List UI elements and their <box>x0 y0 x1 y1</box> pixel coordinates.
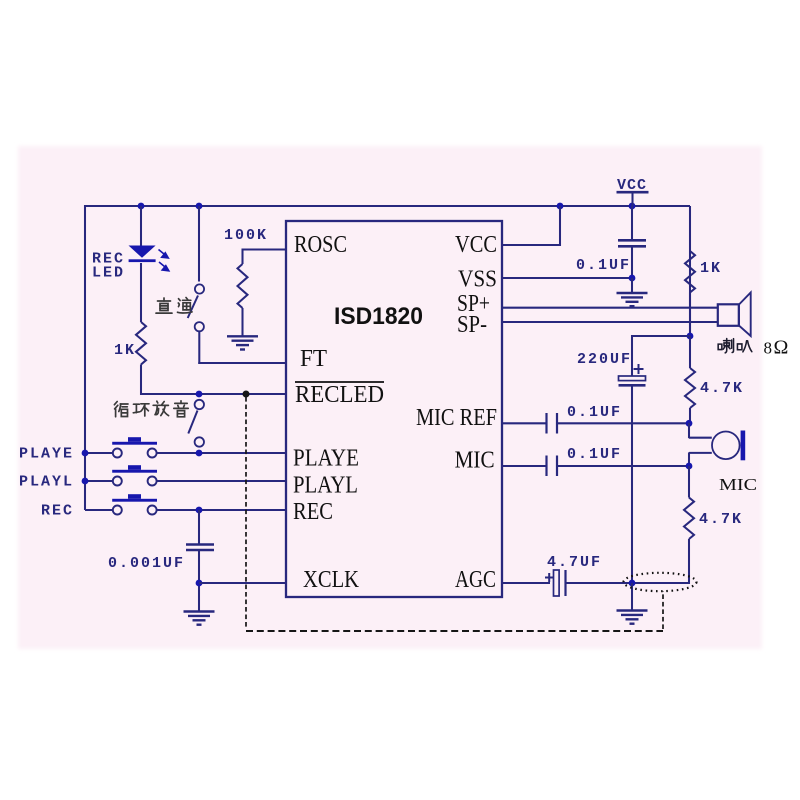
long vertical from 220UF to AGC ground <box>631 385 633 583</box>
svg-text:0.001UF: 0.001UF <box>108 555 185 572</box>
dashed link path <box>245 397 247 629</box>
wire MIC <box>502 465 546 467</box>
ground below 100K <box>227 335 258 337</box>
wire LED to R 1K <box>140 263 142 322</box>
svg-text:4.7K: 4.7K <box>699 511 743 528</box>
push button PLAYE <box>85 452 113 454</box>
wire junction to 220UF <box>632 335 690 337</box>
wire: right vertical rail (1K/speaker/mic chain) <box>689 206 691 336</box>
svg-text:REC: REC <box>41 503 74 520</box>
resistor R 4.7K (upper) <box>689 336 691 368</box>
capacitor C 0.001UF branch <box>198 510 200 544</box>
svg-text:0.1UF: 0.1UF <box>576 257 631 274</box>
svg-text:MIC: MIC <box>719 475 757 494</box>
capacitor C 0.1UF (MIC) <box>545 456 547 477</box>
ground below 0.001UF <box>184 610 215 612</box>
node dots on RECLED row <box>196 391 203 398</box>
resistor R 100K + wire to ROSC <box>243 248 287 250</box>
speaker LS1 <box>718 304 739 326</box>
svg-text:4.7K: 4.7K <box>700 380 744 397</box>
svg-text:VCC: VCC <box>455 232 497 258</box>
push button REC <box>85 509 113 511</box>
node: black dot feedback tap <box>243 391 250 398</box>
wire XCLK <box>199 582 286 584</box>
svg-text:PLAYE: PLAYE <box>293 446 359 472</box>
svg-text:LED: LED <box>92 265 125 282</box>
capacitor C 0.1UF (VCC) <box>631 206 633 240</box>
VCC pin wire <box>502 244 560 246</box>
wires SP+ / SP- to speaker <box>502 307 718 309</box>
svg-text:AGC: AGC <box>455 567 496 593</box>
svg-text:100K: 100K <box>224 227 268 244</box>
svg-text:VSS: VSS <box>458 267 497 293</box>
label 直通 (switch S1) <box>156 298 172 313</box>
resistor R 1K (right) <box>685 251 695 293</box>
svg-text:SP-: SP- <box>457 312 487 338</box>
svg-text:8: 8 <box>764 339 773 358</box>
svg-text:1K: 1K <box>114 342 136 359</box>
wire MIC REF <box>502 422 546 424</box>
svg-text:ISD1820: ISD1820 <box>334 303 423 330</box>
svg-text:0.1UF: 0.1UF <box>567 446 622 463</box>
capacitor C 0.1UF (MIC REF) <box>545 413 547 434</box>
label 喇叭 8Ω (speaker) <box>718 338 733 352</box>
node dots left bus / switch bottom <box>82 450 89 457</box>
photo background (pink scan area) <box>18 146 762 649</box>
svg-text:PLAYL: PLAYL <box>19 474 74 491</box>
svg-text:PLAYL: PLAYL <box>293 473 358 499</box>
svg-text:0.1UF: 0.1UF <box>567 404 622 421</box>
ground below AGC <box>631 583 633 611</box>
ground below VSS cap <box>631 278 633 293</box>
svg-text:MIC: MIC <box>455 448 495 474</box>
label 循环放音 (switch S2) <box>114 402 128 417</box>
resistor R 1K (LED) <box>136 322 146 365</box>
svg-text:MIC REF: MIC REF <box>416 405 497 431</box>
switch S1 直通 branch <box>198 206 200 282</box>
LED arrows <box>159 250 169 271</box>
wire: left bus vertical <box>84 205 86 510</box>
svg-text:RECLED: RECLED <box>295 382 384 408</box>
svg-text:XCLK: XCLK <box>303 567 360 593</box>
capacitor C 220UF polarized <box>619 376 646 381</box>
wire VSS <box>502 277 632 279</box>
microphone MIC1 <box>688 423 690 438</box>
wire R1K to RECLED row <box>140 365 142 396</box>
resistor R 4.7K (lower) <box>688 466 690 498</box>
svg-text:PLAYE: PLAYE <box>19 446 74 463</box>
node: top rail junction dots <box>138 203 145 210</box>
node SP junction <box>687 333 694 340</box>
capacitor C 4.7UF polarized <box>554 570 560 596</box>
dotted highlight ellipse <box>624 573 697 591</box>
svg-text:1K: 1K <box>700 260 722 277</box>
wire AGC row <box>502 582 550 584</box>
LED D1 (REC LED) <box>129 246 156 258</box>
switch S2 循环放音 <box>195 400 204 409</box>
wire: VCC top rail <box>85 205 690 207</box>
svg-text:Ω: Ω <box>774 337 789 359</box>
svg-text:FT: FT <box>300 346 327 372</box>
IC U1 ISD1820 body <box>286 221 502 597</box>
svg-text:4.7UF: 4.7UF <box>547 554 602 571</box>
svg-text:REC: REC <box>293 499 333 525</box>
LED branch vertical top <box>140 206 142 246</box>
push button PLAYL <box>85 480 113 482</box>
svg-text:ROSC: ROSC <box>294 232 347 258</box>
svg-text:220UF: 220UF <box>577 351 632 368</box>
